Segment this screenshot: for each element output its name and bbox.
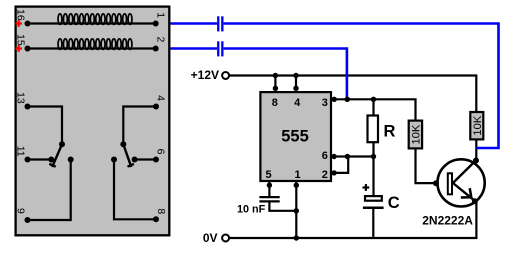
blue wire pin2 to C2 [171, 47, 218, 50]
+12V rail wire [229, 76, 476, 112]
pin label 6 [154, 149, 166, 155]
555 pin label 5 [266, 169, 272, 181]
wire to 555 pin 4 [295, 76, 297, 89]
junction dot pin6/R bottom [371, 154, 376, 159]
inductor coil L2 (pins 15-2) [58, 39, 132, 50]
svg-text:R: R [384, 123, 396, 141]
junction dot 555 pin 8 [273, 86, 278, 91]
junction dot pin2 stub [331, 170, 336, 175]
switch SW2 lever [123, 144, 134, 167]
label 2N2222A [422, 213, 473, 227]
blue wire C1 to transistor base net [224, 24, 499, 149]
555 timer U1 [260, 92, 331, 181]
pin label 9 [14, 208, 26, 214]
svg-text:4: 4 [154, 95, 166, 101]
svg-text:15: 15 [14, 34, 26, 46]
relay pin dots right (1,2,4,6,8) [153, 21, 159, 223]
transistor Q1 2N2222A [438, 159, 485, 206]
switch SW1 contact wire (pin 9) [28, 160, 71, 221]
555 pin label 6 [322, 150, 328, 162]
inductor coil L1 (pins 16-1) [58, 14, 132, 25]
0V rail wire [229, 201, 476, 238]
switch SW1 lever [49, 144, 62, 167]
svg-text:16: 16 [14, 9, 26, 21]
junction dot emitter [472, 198, 478, 204]
pin label 16 [14, 9, 26, 21]
junction dot pin5 stub [267, 183, 272, 188]
555 pin 3 output net wire [331, 99, 415, 121]
0V terminal [203, 231, 229, 245]
wire coil2 leads [28, 47, 156, 49]
svg-text:C: C [388, 194, 400, 212]
junction dot pin1/0V rail [294, 235, 299, 240]
junction dot pin3/blue [345, 97, 350, 102]
pin label 4 [154, 95, 166, 101]
pin label 1 [154, 12, 166, 18]
resistor R top wire [372, 99, 374, 116]
resistor R [368, 116, 396, 143]
junction dot pin1 stub [294, 183, 299, 188]
svg-text:10K: 10K [472, 115, 484, 136]
resistor R2 10K (left) [409, 121, 423, 149]
switch SW1 pivot dot [59, 141, 65, 147]
555 pin label 2 [322, 169, 328, 181]
svg-text:10 nF: 10 nF [237, 204, 266, 216]
svg-text:6: 6 [154, 149, 166, 155]
svg-text:8: 8 [155, 208, 167, 214]
label 10 nF [237, 204, 266, 216]
svg-text:2: 2 [154, 37, 166, 43]
svg-text:+12V: +12V [191, 68, 219, 82]
capacitor C1 (blue, top) [217, 16, 223, 31]
relay pin dots left (16,15,13,11,9) [25, 21, 31, 224]
svg-text:2N2222A: 2N2222A [422, 213, 473, 227]
svg-text:11: 11 [14, 146, 26, 157]
resistor R bottom wire to C [372, 142, 374, 196]
junction dot 10nF/pin1 [294, 208, 299, 213]
junction dot pin6 stub [331, 154, 336, 159]
resistor R3 bottom wire to collector [475, 139, 477, 160]
svg-text:13: 13 [14, 92, 26, 104]
switch SW1 contact dots [48, 157, 73, 163]
switch SW1 common wire (pin 13) [28, 107, 63, 144]
pin label 2 [154, 37, 166, 43]
junction dot +12V/pin4 [293, 73, 298, 78]
capacitor C bottom wire [372, 208, 374, 238]
555 pin label 8 [272, 97, 278, 109]
555 pin 2 stub wire [332, 157, 349, 173]
10nF bottom wire to pin 1 [269, 201, 296, 210]
555 pin label 4 [294, 97, 301, 109]
pin label 13 [14, 92, 26, 104]
555 pin 1 wire to 0V [295, 182, 297, 239]
switch SW2 contact wire (pin 8) [114, 160, 156, 220]
resistor R3 10K (right) [470, 112, 484, 139]
resistor R2 bottom wire to base [416, 149, 447, 184]
555 pin label 3 [322, 97, 328, 109]
svg-text:8: 8 [272, 97, 278, 109]
svg-text:5: 5 [266, 169, 272, 181]
junction dot base [433, 180, 439, 186]
pin label 8 [155, 208, 167, 214]
junction dot 555 pin 4 [293, 86, 298, 91]
capacitor 10nF [259, 197, 279, 201]
junction dot pin3/R top [371, 97, 376, 102]
svg-text:4: 4 [294, 97, 301, 109]
555 pin label 1 [295, 169, 301, 181]
switch SW2 contact dots [111, 157, 138, 163]
svg-text:1: 1 [154, 12, 166, 18]
capacitor C2 (blue, bottom) [217, 41, 223, 56]
svg-text:1: 1 [295, 169, 301, 181]
polarity mark + (pin 16) [15, 20, 22, 27]
capacitor C plus mark [363, 184, 370, 191]
relay module body [16, 7, 170, 236]
switch SW2 pivot dot [120, 141, 126, 147]
wire coil1 leads [28, 22, 156, 24]
svg-text:9: 9 [14, 208, 26, 214]
svg-text:2: 2 [322, 169, 328, 181]
svg-text:0V: 0V [203, 231, 218, 245]
pin label 11 [14, 146, 26, 157]
switch SW2 common wire (pin 4) [123, 107, 156, 144]
junction dot +12V/pin8 [273, 73, 278, 78]
blue wire pin1 to C1 [171, 22, 218, 25]
junction dot pin6/pin2 [345, 154, 350, 159]
junction dot pin3 stub [332, 97, 337, 102]
junction dot collector [473, 158, 479, 164]
label C [388, 194, 400, 212]
+12V terminal [191, 68, 229, 82]
svg-text:10K: 10K [410, 124, 422, 145]
svg-text:3: 3 [322, 97, 328, 109]
switch SW1 contact wire (pin 11) [28, 158, 52, 160]
capacitor C (electrolytic) [363, 196, 384, 208]
svg-text:555: 555 [281, 127, 309, 145]
switch SW2 contact wire (pin 6) [135, 158, 156, 160]
blue wire C2 to 555 pin 3 [224, 49, 347, 100]
pin label 15 [14, 34, 26, 46]
555 pin 6 stub wire [332, 155, 348, 157]
555 pin 5 stub wire [268, 182, 270, 197]
net 6-2 to R bottom wire [347, 155, 373, 157]
wire to 555 pin 8 [274, 76, 276, 89]
polarity mark + (pin 15) [15, 45, 22, 52]
svg-text:6: 6 [322, 150, 328, 162]
